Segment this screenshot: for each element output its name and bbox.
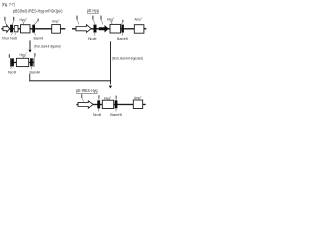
svg-text:BamHI: BamHI: [110, 113, 122, 117]
svg-text:BamHI: BamHI: [30, 70, 41, 74]
svg-text:r: r: [59, 18, 60, 22]
svg-text:Hyg: Hyg: [107, 16, 113, 21]
svg-text:NotI: NotI: [8, 70, 16, 74]
svg-text:NotI: NotI: [88, 37, 97, 41]
svg-text:XhoI: XhoI: [2, 37, 10, 41]
svg-text:r: r: [110, 95, 111, 99]
svg-text:pBS(hel)-IRES-Hyg-mPGK(pA): pBS(hel)-IRES-Hyg-mPGK(pA): [13, 8, 63, 13]
svg-text:r: r: [141, 95, 142, 99]
svg-text:(XhoI, BamHI digestion): (XhoI, BamHI digestion): [34, 43, 62, 48]
svg-text:NotI: NotI: [93, 113, 101, 117]
svg-text:r: r: [26, 16, 27, 20]
svg-text:BamHI: BamHI: [34, 37, 44, 41]
svg-text:(Fig. 7-7): (Fig. 7-7): [2, 2, 15, 7]
svg-text:NotI: NotI: [10, 37, 17, 41]
svg-text:r: r: [26, 51, 27, 55]
svg-text:pE-IRES-Hyg: pE-IRES-Hyg: [76, 88, 98, 93]
svg-text:Hyg: Hyg: [20, 17, 26, 22]
svg-text:Hyg: Hyg: [20, 52, 26, 57]
svg-text:BamHI: BamHI: [117, 37, 128, 41]
svg-text:(NotI, BamHI digested): (NotI, BamHI digested): [112, 56, 144, 61]
svg-text:Hyg: Hyg: [104, 95, 110, 100]
svg-text:r: r: [141, 16, 142, 20]
svg-text:r: r: [113, 16, 114, 20]
svg-text:pE-Hyg: pE-Hyg: [87, 8, 99, 13]
